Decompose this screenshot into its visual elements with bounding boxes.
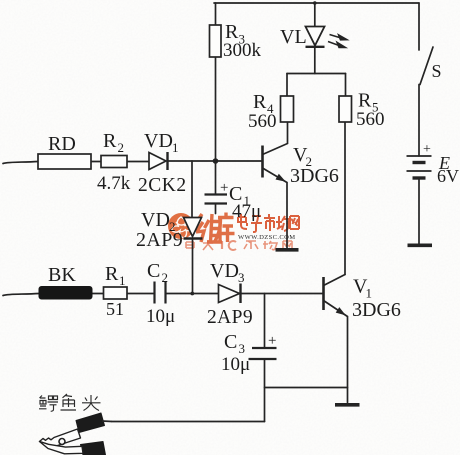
svg-text:6V: 6V: [437, 166, 459, 186]
svg-text:VD: VD: [144, 130, 173, 152]
svg-text:VD: VD: [141, 209, 170, 231]
svg-text:C: C: [147, 260, 160, 282]
svg-text:10μ: 10μ: [146, 306, 175, 327]
svg-text:+: +: [220, 180, 228, 196]
svg-text:1: 1: [172, 140, 179, 155]
svg-text:560: 560: [356, 109, 385, 130]
svg-text:VD: VD: [210, 260, 239, 282]
svg-text:10μ: 10μ: [221, 354, 250, 375]
svg-text:R: R: [253, 91, 267, 113]
svg-text:R: R: [105, 263, 119, 285]
svg-text:47μ: 47μ: [232, 201, 261, 222]
svg-text:3: 3: [238, 270, 245, 285]
svg-text:RD: RD: [48, 133, 76, 155]
svg-text:4.7k: 4.7k: [97, 173, 131, 194]
svg-text:R: R: [103, 130, 117, 152]
svg-text:+: +: [423, 142, 431, 157]
svg-text:300k: 300k: [223, 40, 262, 61]
svg-text:C: C: [224, 331, 237, 353]
svg-text:+: +: [268, 333, 276, 349]
svg-text:2AP9: 2AP9: [207, 307, 253, 328]
svg-text:S: S: [432, 61, 442, 81]
svg-text:3DG6: 3DG6: [290, 165, 339, 187]
svg-text:1: 1: [119, 273, 126, 288]
svg-text:BK: BK: [48, 264, 76, 286]
svg-text:2: 2: [118, 140, 125, 155]
svg-text:3DG6: 3DG6: [352, 299, 401, 321]
svg-text:2: 2: [162, 270, 169, 285]
svg-text:2AP9: 2AP9: [136, 229, 183, 251]
svg-text:2CK2: 2CK2: [138, 175, 187, 196]
svg-text:51: 51: [106, 299, 124, 319]
svg-text:560: 560: [248, 111, 277, 132]
svg-text:VL: VL: [280, 26, 307, 48]
